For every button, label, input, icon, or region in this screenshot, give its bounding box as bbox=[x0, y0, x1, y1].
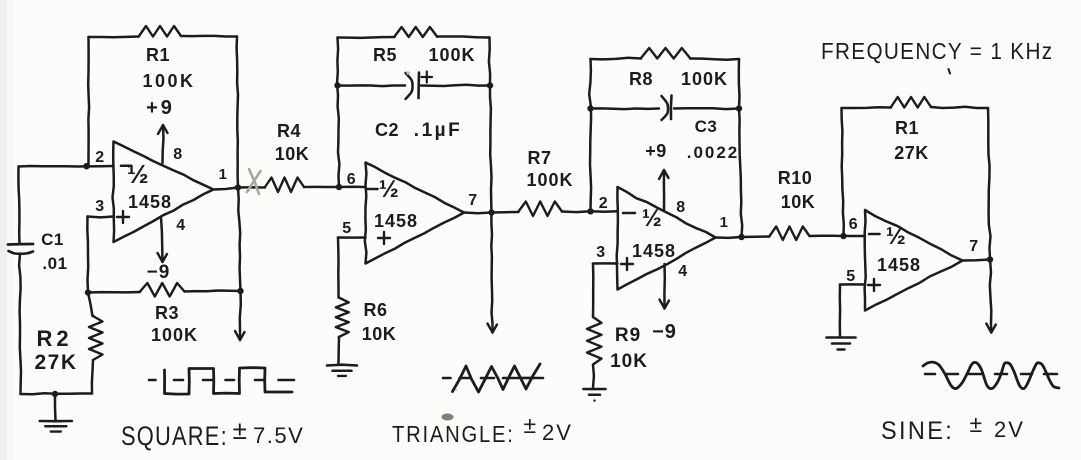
svg-text:R2: R2 bbox=[36, 326, 72, 351]
svg-text:C2: C2 bbox=[375, 120, 399, 140]
svg-text:2: 2 bbox=[95, 149, 104, 166]
svg-text:4: 4 bbox=[678, 263, 687, 280]
svg-text:10K: 10K bbox=[275, 144, 310, 164]
svg-text:10K: 10K bbox=[610, 351, 648, 372]
svg-text:1458: 1458 bbox=[877, 255, 921, 275]
svg-text:.01: .01 bbox=[42, 254, 67, 273]
svg-text:5: 5 bbox=[846, 268, 855, 285]
svg-text:5: 5 bbox=[342, 220, 351, 237]
svg-text:½: ½ bbox=[642, 205, 663, 232]
svg-text:3: 3 bbox=[596, 244, 605, 261]
svg-text:1: 1 bbox=[720, 214, 729, 231]
svg-text:4: 4 bbox=[176, 217, 185, 234]
svg-text:1458: 1458 bbox=[128, 192, 172, 212]
svg-text:8: 8 bbox=[173, 146, 182, 163]
svg-text:27K: 27K bbox=[894, 143, 929, 163]
svg-text:R6: R6 bbox=[363, 300, 387, 320]
svg-text:2: 2 bbox=[599, 195, 608, 212]
svg-text:100K: 100K bbox=[142, 71, 195, 91]
svg-text:7: 7 bbox=[468, 192, 477, 209]
svg-text:2V: 2V bbox=[542, 420, 573, 445]
svg-text:3: 3 bbox=[95, 198, 104, 215]
svg-text:½: ½ bbox=[886, 223, 907, 250]
svg-text:TRIANGLE:: TRIANGLE: bbox=[392, 421, 515, 448]
svg-text:7.5V: 7.5V bbox=[253, 423, 304, 448]
svg-text:R7: R7 bbox=[527, 148, 551, 168]
svg-text:SQUARE:: SQUARE: bbox=[121, 422, 228, 452]
svg-text:R5: R5 bbox=[373, 45, 397, 65]
svg-text:8: 8 bbox=[676, 199, 685, 216]
svg-text:−9: −9 bbox=[147, 262, 171, 283]
svg-text:½: ½ bbox=[379, 176, 400, 203]
svg-text:SINE:: SINE: bbox=[881, 417, 954, 445]
svg-text:FREQUENCY = 1 KHz: FREQUENCY = 1 KHz bbox=[821, 38, 1053, 64]
svg-text:±: ± bbox=[233, 415, 248, 445]
svg-text:100K: 100K bbox=[681, 69, 728, 89]
svg-text:R8: R8 bbox=[629, 69, 653, 89]
svg-text:−9: −9 bbox=[652, 321, 677, 343]
svg-text:6: 6 bbox=[849, 216, 858, 233]
svg-text:1458: 1458 bbox=[632, 241, 676, 261]
svg-text:R1: R1 bbox=[146, 45, 170, 65]
svg-text:.1µF: .1µF bbox=[414, 120, 462, 141]
svg-text:C1: C1 bbox=[41, 230, 64, 249]
svg-text:R9: R9 bbox=[615, 325, 641, 346]
svg-text:7: 7 bbox=[969, 238, 978, 255]
svg-text:10K: 10K bbox=[781, 192, 816, 212]
svg-text:+9: +9 bbox=[645, 141, 667, 161]
svg-text:±: ± bbox=[523, 412, 536, 438]
svg-text:6: 6 bbox=[347, 171, 356, 188]
svg-text:+9: +9 bbox=[146, 97, 175, 119]
svg-text:R10: R10 bbox=[778, 168, 813, 188]
svg-text:R4: R4 bbox=[277, 121, 301, 141]
svg-text:C3: C3 bbox=[695, 117, 718, 136]
svg-text:100K: 100K bbox=[151, 325, 198, 345]
svg-text:10K: 10K bbox=[362, 324, 397, 344]
svg-text:.0022: .0022 bbox=[687, 143, 740, 162]
svg-text:100K: 100K bbox=[526, 170, 573, 190]
svg-text:27K: 27K bbox=[34, 351, 77, 374]
svg-text:1: 1 bbox=[219, 166, 228, 183]
svg-text:R1: R1 bbox=[895, 118, 919, 138]
svg-text:1458: 1458 bbox=[374, 211, 418, 231]
svg-text:½: ½ bbox=[127, 159, 149, 189]
svg-text:100K: 100K bbox=[428, 45, 475, 65]
svg-text:R3: R3 bbox=[155, 303, 179, 323]
svg-text:2V: 2V bbox=[994, 417, 1025, 442]
svg-text:±: ± bbox=[969, 411, 982, 437]
